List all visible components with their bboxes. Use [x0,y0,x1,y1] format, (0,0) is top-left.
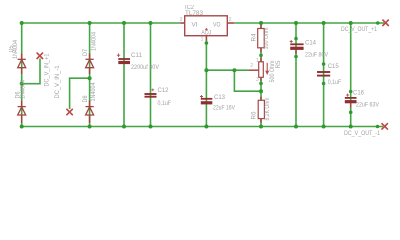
wire ADJ / C13 leg [205,40,207,127]
svg-text:C16: C16 [353,90,365,96]
open-end X DC_V_OUT_+1 [382,20,388,26]
potentiometer R5 pin stubs [260,58,262,81]
svg-text:1N4004: 1N4004 [92,31,98,51]
svg-text:C15: C15 [328,64,340,70]
wire bottom rail [22,126,383,128]
R5 wiper pin stub [249,69,259,71]
wire ADJ to wiper horizontal [206,70,261,91]
svg-text:R5: R5 [276,60,282,69]
svg-text:C11: C11 [131,53,143,59]
wire C12 leg [150,23,152,127]
IC2 ADJ pin stub [205,36,207,41]
svg-text:1N4004: 1N4004 [91,82,97,102]
resistor R4 [258,29,265,48]
svg-text:R4: R4 [252,33,258,42]
svg-text:R6: R6 [252,111,258,120]
IC2 VO pin stub [227,22,234,24]
svg-text:TL783: TL783 [185,11,204,17]
wire top rail left segment [22,22,181,24]
diode D6 [18,101,26,124]
svg-text:1: 1 [256,58,259,64]
svg-text:C12: C12 [158,88,170,94]
wire C16 leg [350,23,352,127]
capacitor C14 (polarized) [290,44,303,48]
wire C14 leg [295,23,297,127]
svg-text:3: 3 [180,17,183,23]
svg-text:0,1uF: 0,1uF [328,80,342,86]
capacitor C15 [317,72,330,76]
C14 bottom pin stub [295,50,297,54]
IC2 regulator box [185,16,228,36]
svg-text:C13: C13 [214,95,226,101]
svg-text:VO: VO [213,22,221,28]
svg-text:DC_V_OUT_+1: DC_V_OUT_+1 [341,27,378,33]
IC2 origin cross [205,28,208,31]
svg-text:22uF 63V: 22uF 63V [356,103,379,109]
diode D7 [86,54,94,75]
C16 plus mark [346,94,349,97]
wire DC_V_IN_-1 branch [70,78,90,109]
svg-text:DC_V_OUT_-1: DC_V_OUT_-1 [344,131,381,137]
C12 origin mark [151,89,154,92]
svg-text:1: 1 [201,36,204,42]
svg-text:0,1uF: 0,1uF [158,101,172,107]
resistor R4 pin stubs [260,24,262,53]
R5 wiper arrow [266,63,268,72]
svg-text:C14: C14 [305,40,317,46]
svg-text:DC_V_IN_+1: DC_V_IN_+1 [45,53,51,87]
wire DC_V_IN_+1 branch [22,59,40,84]
svg-text:1N4004: 1N4004 [13,39,19,59]
wire R4-R5-R6 column [260,23,262,127]
C16 bottom pin stub [350,103,352,107]
potentiometer R5 body [259,62,264,78]
svg-text:2: 2 [229,17,232,23]
svg-text:D8: D8 [83,95,89,103]
wire top rail right segment [234,22,384,24]
wire C11 leg [123,23,125,127]
svg-text:2200uf 80V: 2200uf 80V [131,65,159,71]
open-end X DC_V_OUT_-1 [382,123,388,129]
C14 plus mark [290,40,293,43]
C13 plus mark [200,95,203,98]
svg-text:3: 3 [256,77,259,83]
wire D7/D8 leg vertical [89,23,91,127]
capacitor C11 (polarized) [118,59,130,63]
open-end X DC_V_IN_+1 [37,53,43,59]
svg-text:8,2K Ohm: 8,2K Ohm [265,98,271,121]
IC2 VI pin stub [180,22,185,24]
capacitor C16 (polarized) [345,98,357,102]
svg-text:1N4004: 1N4004 [20,79,26,99]
wire pot wiper stub green [234,69,249,71]
svg-text:22uF 80V: 22uF 80V [305,53,328,59]
svg-text:VI: VI [192,22,198,28]
svg-text:D7: D7 [83,48,89,56]
wire left vertical (D5/D6 leg) [21,23,23,127]
diode D5 [18,54,26,75]
svg-text:DC_V_IN_-1: DC_V_IN_-1 [55,65,61,99]
resistor R6 [258,100,264,118]
open-end X DC_V_IN_-1 [66,109,72,115]
diode D8 [86,101,94,124]
svg-text:100 Ohm: 100 Ohm [264,28,270,50]
C11 plus mark [117,54,120,58]
capacitor C12 [145,94,157,97]
svg-text:2: 2 [250,63,253,69]
svg-text:22uF 16V: 22uF 16V [213,105,235,111]
resistor R6 pin stubs [260,97,262,123]
wire C15 leg [323,23,325,127]
capacitor C13 (polarized) [201,99,213,103]
